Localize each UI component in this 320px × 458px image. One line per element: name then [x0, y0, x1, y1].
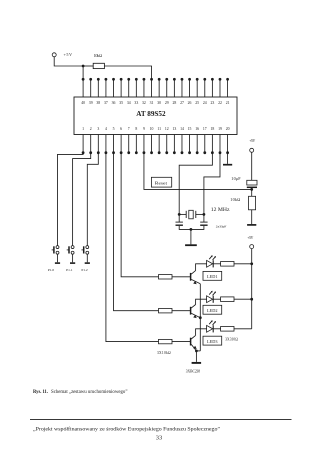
wire LED LED2 to limiting resistor [213, 298, 220, 300]
svg-text:+5V: +5V [249, 139, 255, 143]
svg-text:P1.0: P1.0 [48, 268, 55, 272]
svg-text:13: 13 [172, 127, 176, 131]
svg-text:15: 15 [188, 127, 192, 131]
label 10k (reset) [230, 197, 240, 202]
wire LED LED3 to limiting resistor [213, 328, 220, 330]
svg-text:4: 4 [105, 127, 107, 131]
wire collector Q2 to LED LED2 [196, 299, 207, 304]
svg-text:26: 26 [188, 101, 192, 105]
svg-text:37: 37 [104, 101, 108, 105]
svg-text:18: 18 [210, 127, 214, 131]
wire resistor 1 to +5V bus [234, 263, 252, 265]
wire +5V terminal to capacitor [251, 152, 253, 180]
label 10uF [231, 176, 241, 181]
svg-text:28: 28 [172, 101, 176, 105]
wire node to ground [190, 229, 192, 244]
wire base resistor to transistor Q3 [172, 341, 190, 343]
svg-text:36: 36 [112, 101, 116, 105]
wire node to resistor [83, 65, 93, 67]
svg-text:LED2: LED2 [207, 308, 218, 313]
svg-text:10: 10 [150, 127, 154, 131]
LED LED3 diode symbol [207, 320, 216, 332]
ground (oscillator) [185, 244, 197, 246]
svg-text:11: 11 [157, 127, 161, 131]
power terminal +5V (top left) [52, 52, 72, 57]
label box LED2 [203, 305, 222, 314]
label box LED1 [203, 271, 222, 280]
wire capacitors to ground node [179, 226, 204, 230]
svg-text:24: 24 [203, 101, 207, 105]
LED LED1 diode symbol [207, 255, 216, 267]
wire pin6 to base resistor 1 [121, 153, 158, 277]
footer rule [30, 419, 292, 421]
junction dot crystal left [178, 213, 181, 216]
svg-text:16: 16 [195, 127, 199, 131]
label 12 MHz [211, 207, 230, 213]
wire collector Q1 to LED LED1 [196, 264, 207, 271]
svg-text:„Projekt współfinansowany ze ś: „Projekt współfinansowany ze środków Eur… [33, 425, 221, 432]
svg-text:30: 30 [157, 101, 161, 105]
bottom pin stubs with terminal dots (pins 1..20) [82, 135, 229, 155]
label box LED3 [203, 336, 222, 345]
wire pin3 to switch P1.2 [87, 153, 98, 246]
pushbutton switch P1.2 with ground [81, 246, 90, 273]
svg-text:35: 35 [119, 101, 123, 105]
wire pin5 to base resistor 2 [114, 153, 159, 311]
svg-text:9: 9 [143, 127, 145, 131]
svg-text:40: 40 [81, 101, 85, 105]
page number 33 [156, 434, 162, 441]
junction dot reset node [250, 188, 253, 191]
pushbutton switch P1.1 with ground [66, 246, 75, 273]
bottom pin numbers 1..20 [82, 127, 229, 131]
svg-text:P1.1: P1.1 [66, 268, 73, 272]
junction dot bus stage 1 [250, 262, 253, 265]
resistor 10k (reset pull-down) [249, 196, 256, 210]
wire resistor 3 to +5V bus [234, 328, 252, 330]
svg-text:12 MHz: 12 MHz [211, 207, 230, 213]
label 2x33pF [216, 224, 227, 228]
resistor 310 ohm (stage 3) [221, 327, 234, 332]
svg-text:10kΩ: 10kΩ [94, 53, 103, 58]
wire pin20 GND down [227, 153, 229, 164]
wire pin18 XTAL2 to crystal left node [179, 153, 212, 222]
svg-text:22: 22 [218, 101, 222, 105]
svg-text:2: 2 [90, 127, 92, 131]
svg-text:33: 33 [156, 434, 162, 441]
IC U1 AT 89S52 body [74, 97, 237, 135]
wire collector Q3 to LED LED3 [196, 329, 207, 336]
figure caption Rys. 11 [33, 390, 128, 395]
svg-text:8: 8 [135, 127, 137, 131]
transistor Q2 BC238 (NPN) [191, 305, 201, 319]
emitter rail wire [196, 284, 200, 362]
svg-text:19: 19 [218, 127, 222, 131]
svg-text:Rys. 11.: Rys. 11. [33, 390, 48, 395]
power terminal +5V (LED supply) [250, 245, 254, 249]
resistor 10k base (stage 1) [159, 275, 173, 279]
transistor Q1 BC238 (NPN) [191, 271, 201, 285]
wire resistor 2 to +5V bus [234, 298, 252, 300]
svg-text:31: 31 [150, 101, 154, 105]
label +5V (LED supply) [247, 236, 253, 240]
svg-text:33: 33 [134, 101, 138, 105]
svg-text:Schemat „zestawu uruchomieniow: Schemat „zestawu uruchomieniowego” [51, 390, 128, 395]
svg-text:+5V: +5V [247, 236, 253, 240]
wire resistor to pin 31 stub [104, 66, 151, 78]
junction dot emitter stage 2 [199, 316, 202, 319]
svg-text:AT 89S52: AT 89S52 [136, 109, 166, 118]
junction dot crystal right [203, 213, 206, 216]
ground (reset resistor) [247, 224, 256, 226]
svg-text:5: 5 [113, 127, 115, 131]
svg-text:3X10kΩ: 3X10kΩ [157, 351, 171, 355]
svg-text:3: 3 [97, 127, 99, 131]
svg-text:38: 38 [96, 101, 100, 105]
svg-text:7: 7 [128, 127, 130, 131]
svg-text:P1.2: P1.2 [81, 268, 88, 272]
wire base resistor to transistor Q2 [172, 310, 190, 312]
svg-text:10μF: 10μF [231, 176, 241, 181]
junction dot bus stage 2 [250, 298, 253, 301]
svg-text:17: 17 [203, 127, 207, 131]
svg-text:Reset: Reset [155, 181, 168, 186]
svg-text:27: 27 [180, 101, 184, 105]
svg-text:3X310Ω: 3X310Ω [225, 338, 238, 342]
svg-text:29: 29 [165, 101, 169, 105]
resistor 10k pull-up (EA) [93, 53, 104, 69]
junction dot at pin40/+5V node [82, 65, 85, 68]
resistor 310 ohm (stage 2) [221, 297, 234, 302]
svg-text:LED3: LED3 [207, 339, 218, 344]
wire pin4 to base resistor 3 [106, 153, 159, 342]
svg-text:6: 6 [120, 127, 122, 131]
svg-text:39: 39 [89, 101, 93, 105]
footer text [33, 425, 221, 432]
ground (emitter rail) [192, 362, 202, 364]
svg-text:12: 12 [165, 127, 169, 131]
svg-text:10kΩ: 10kΩ [230, 197, 240, 202]
top pin numbers 40..21 [81, 101, 229, 105]
label +5V (right column top) [249, 139, 255, 143]
wire reset node to resistor [251, 189, 253, 196]
wire pin2 to switch P1.1 [73, 153, 91, 246]
pushbutton switch P1.0 with ground [48, 246, 60, 273]
wire base resistor to transistor Q1 [172, 276, 190, 278]
transistor Q3 BC238 (NPN) [191, 335, 197, 351]
label 3X310 ohm [225, 338, 238, 342]
power terminal +5V (right column) [250, 148, 254, 152]
svg-text:21: 21 [226, 101, 230, 105]
ground (pin 20) [223, 164, 232, 166]
svg-text:1: 1 [82, 127, 84, 131]
wire pin19 XTAL1 to crystal right node [204, 153, 220, 222]
junction dot emitter stage 3 [195, 350, 198, 353]
svg-text:32: 32 [142, 101, 146, 105]
svg-text:+5V: +5V [64, 52, 73, 57]
wire LED LED1 to limiting resistor [213, 263, 220, 265]
wire +5V terminal to node at pin 40 [54, 57, 83, 66]
resistor 10k base (stage 3) [159, 339, 173, 343]
capacitor 33pF right [200, 222, 207, 225]
svg-text:14: 14 [180, 127, 184, 131]
svg-text:LED1: LED1 [207, 274, 218, 279]
LED LED2 diode symbol [207, 291, 216, 303]
top pin stubs with terminal dots (pins 40..21) [82, 78, 229, 97]
resistor 10k base (stage 2) [159, 309, 173, 313]
capacitor 10uF electrolytic [247, 180, 257, 189]
svg-text:25: 25 [195, 101, 199, 105]
svg-text:34: 34 [127, 101, 131, 105]
wire pin1 to switch P1.0 [58, 153, 84, 246]
crystal 12 MHz [179, 210, 204, 219]
svg-text:20: 20 [226, 127, 230, 131]
reset button label box [151, 177, 171, 187]
capacitor 33pF left [176, 222, 183, 225]
wire +5V node down to pin 40 dot [82, 66, 84, 79]
junction dot oscillator ground node [190, 228, 193, 231]
svg-text:23: 23 [210, 101, 214, 105]
label 3XBC238 [186, 370, 201, 374]
svg-text:2x33pF: 2x33pF [216, 224, 227, 228]
wire pin9 RST down and right to reset node [144, 153, 252, 190]
wire +5V LED supply bus [251, 249, 253, 329]
svg-text:3XBC238: 3XBC238 [186, 370, 201, 374]
resistor 310 ohm (stage 1) [221, 262, 234, 267]
label 3X10k ohm [157, 351, 171, 355]
wire resistor to ground [251, 210, 253, 224]
